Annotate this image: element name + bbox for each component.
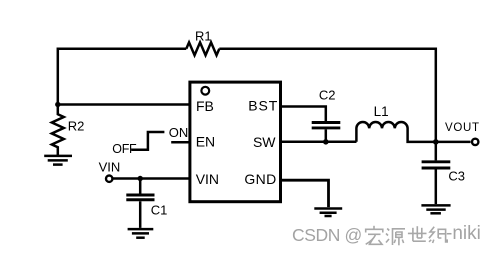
node VOUT junction — [433, 139, 439, 145]
pin-1 marker circle — [201, 87, 209, 95]
wire top wire (right segment) and right rail — [219, 49, 435, 142]
wire VIN net — [113, 177, 190, 180]
svg-text:VIN: VIN — [196, 171, 219, 187]
pin label BST — [248, 98, 278, 114]
svg-text:BST: BST — [248, 98, 278, 114]
svg-text:C1: C1 — [151, 203, 168, 218]
IC U1 body — [190, 82, 281, 202]
svg-text:C3: C3 — [448, 169, 465, 184]
svg-text:GND: GND — [244, 171, 276, 187]
ground (C3) — [421, 205, 450, 213]
svg-text:SW: SW — [253, 134, 276, 150]
switch wire (ON/OFF step) — [131, 132, 164, 150]
wire GND net — [281, 180, 329, 207]
svg-text:VOUT: VOUT — [445, 122, 480, 134]
watermark CSDN prefix — [292, 227, 362, 245]
svg-text:C2: C2 — [319, 87, 336, 102]
wire EN pin stub — [171, 141, 190, 144]
svg-text:ON: ON — [169, 125, 189, 140]
pin label FB — [196, 98, 214, 114]
watermark CJK glyphs (hand drawn) — [363, 225, 449, 249]
svg-text:R2: R2 — [68, 119, 85, 134]
glyph SHI — [407, 226, 426, 241]
capacitor C3 — [422, 142, 451, 204]
watermark niki suffix — [446, 224, 481, 243]
node FB junction — [55, 102, 60, 107]
glyph HONG — [365, 225, 382, 244]
node SW/C2 junction — [323, 139, 329, 145]
resistor R1 — [186, 42, 219, 55]
value label R2 — [68, 119, 85, 134]
ground (IC GND pin) — [314, 209, 342, 217]
wire VOUT — [436, 141, 471, 144]
label OFF — [112, 142, 137, 156]
value label L1 — [374, 104, 389, 119]
label VOUT — [445, 122, 480, 134]
label ON — [169, 125, 189, 140]
inductor L1 — [356, 122, 435, 142]
value label C2 — [319, 87, 336, 102]
capacitor C2 — [312, 123, 341, 142]
svg-text:R1: R1 — [195, 29, 212, 44]
svg-text:EN: EN — [196, 133, 215, 149]
capacitor C1 — [126, 179, 154, 228]
glyph JI — [429, 226, 447, 242]
svg-text:FB: FB — [196, 98, 214, 114]
svg-text:L1: L1 — [374, 104, 389, 119]
ground (C1) — [128, 229, 154, 238]
wire SW net — [281, 141, 357, 144]
label VIN — [99, 160, 121, 175]
terminal VOUT — [472, 139, 478, 145]
value label R1 — [195, 29, 212, 44]
ground (R2) — [44, 156, 72, 165]
pin label SW — [253, 134, 276, 150]
value label C1 — [151, 203, 168, 218]
glyph YUAN — [386, 228, 405, 245]
wire BST net — [281, 107, 326, 122]
node VIN/C1 junction — [138, 176, 143, 181]
pin label GND — [244, 171, 276, 187]
pin label EN — [196, 133, 215, 149]
svg-text:VIN: VIN — [99, 160, 121, 175]
resistor R2 — [52, 105, 64, 157]
wire FB net — [58, 103, 190, 106]
value label C3 — [448, 169, 465, 184]
svg-text:OFF: OFF — [112, 142, 137, 156]
terminal VIN — [106, 176, 112, 182]
pin label VIN — [196, 171, 219, 187]
wire left rail and top wire (left segment) — [58, 49, 187, 105]
